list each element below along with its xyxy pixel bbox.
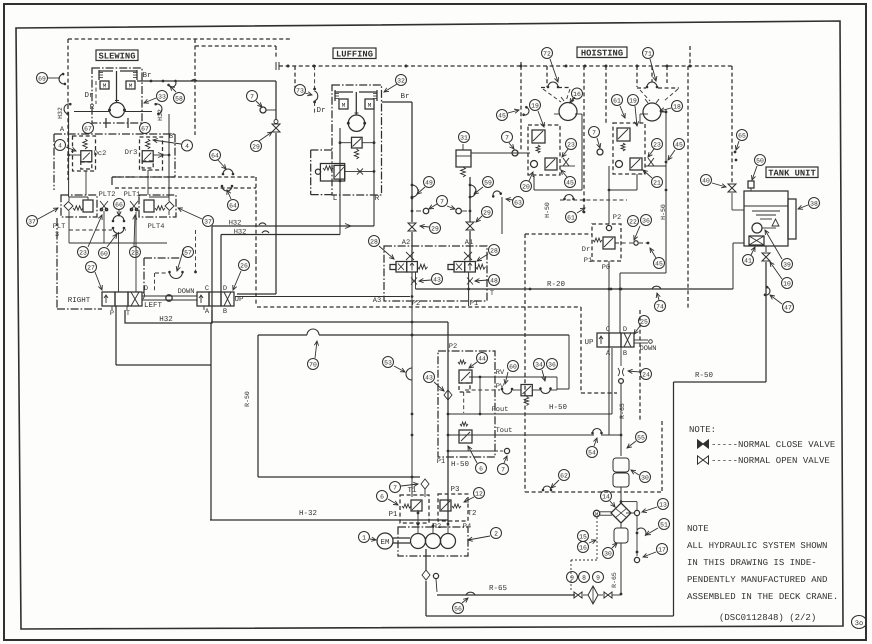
svg-text:44: 44 bbox=[478, 355, 486, 362]
svg-text:SLEWING: SLEWING bbox=[99, 51, 136, 61]
svg-text:H32: H32 bbox=[229, 220, 242, 228]
svg-text:ALL HYDRAULIC SYSTEM SHOWN: ALL HYDRAULIC SYSTEM SHOWN bbox=[687, 541, 827, 551]
svg-text:UP: UP bbox=[234, 296, 244, 304]
svg-text:23: 23 bbox=[567, 141, 575, 148]
svg-text:43: 43 bbox=[425, 374, 433, 381]
svg-text:45: 45 bbox=[498, 112, 506, 119]
svg-text:64: 64 bbox=[211, 152, 219, 159]
svg-text:Pout: Pout bbox=[492, 406, 509, 414]
svg-text:32: 32 bbox=[397, 77, 405, 84]
svg-text:H-50: H-50 bbox=[660, 204, 667, 220]
svg-text:Dr: Dr bbox=[316, 107, 325, 115]
svg-text:R-20: R-20 bbox=[547, 280, 566, 289]
svg-text:P1: P1 bbox=[388, 511, 398, 519]
svg-text:63: 63 bbox=[514, 199, 522, 206]
svg-text:57: 57 bbox=[184, 249, 192, 256]
svg-text:64: 64 bbox=[229, 202, 237, 209]
svg-text:50: 50 bbox=[756, 157, 764, 164]
svg-text:9: 9 bbox=[596, 574, 600, 581]
svg-text:H32: H32 bbox=[234, 229, 247, 237]
svg-text:34: 34 bbox=[535, 361, 543, 368]
svg-text:C: C bbox=[205, 285, 209, 293]
svg-text:HOISTING: HOISTING bbox=[581, 48, 623, 58]
svg-text:H32: H32 bbox=[159, 315, 173, 324]
svg-text:H-50: H-50 bbox=[549, 403, 568, 412]
svg-text:A2: A2 bbox=[402, 239, 410, 247]
svg-text:7: 7 bbox=[501, 466, 505, 473]
svg-text:49: 49 bbox=[425, 179, 433, 186]
svg-text:15: 15 bbox=[579, 533, 587, 540]
svg-text:36: 36 bbox=[642, 217, 650, 224]
svg-text:28: 28 bbox=[370, 238, 378, 245]
svg-text:TANK UNIT: TANK UNIT bbox=[768, 168, 816, 178]
svg-text:23: 23 bbox=[653, 141, 661, 148]
svg-text:36: 36 bbox=[548, 361, 556, 368]
svg-text:LEFT: LEFT bbox=[144, 302, 163, 310]
svg-text:58: 58 bbox=[175, 95, 183, 102]
svg-text:H32: H32 bbox=[57, 107, 64, 119]
svg-text:DOWN: DOWN bbox=[178, 288, 195, 296]
svg-text:3o: 3o bbox=[855, 620, 863, 628]
svg-text:22: 22 bbox=[629, 218, 637, 225]
svg-text:LUFFING: LUFFING bbox=[336, 49, 373, 59]
svg-text:30: 30 bbox=[604, 550, 612, 557]
svg-text:PLT1: PLT1 bbox=[124, 191, 141, 199]
svg-text:60: 60 bbox=[509, 363, 517, 370]
svg-text:39: 39 bbox=[783, 261, 791, 268]
svg-text:R: R bbox=[90, 104, 95, 112]
svg-text:55: 55 bbox=[637, 434, 645, 441]
svg-text:D: D bbox=[223, 285, 227, 293]
svg-text:6: 6 bbox=[479, 465, 483, 472]
svg-text:IN THIS DRAWING IS INDE-: IN THIS DRAWING IS INDE- bbox=[687, 558, 817, 568]
svg-text:UP: UP bbox=[584, 339, 594, 347]
svg-text:13: 13 bbox=[659, 501, 667, 508]
svg-text:48: 48 bbox=[490, 277, 498, 284]
svg-text:45: 45 bbox=[675, 141, 683, 148]
svg-text:4: 4 bbox=[58, 142, 62, 149]
svg-text:-----NORMAL OPEN VALVE: -----NORMAL OPEN VALVE bbox=[711, 456, 830, 466]
svg-text:Dc2: Dc2 bbox=[94, 150, 107, 158]
svg-text:P3: P3 bbox=[450, 485, 460, 494]
svg-text:53: 53 bbox=[384, 359, 392, 366]
svg-text:H32: H32 bbox=[157, 109, 164, 121]
svg-text:21: 21 bbox=[653, 179, 661, 186]
svg-text:P2: P2 bbox=[449, 343, 457, 351]
svg-text:33: 33 bbox=[158, 93, 166, 100]
svg-text:L: L bbox=[333, 195, 338, 203]
svg-text:17: 17 bbox=[658, 546, 666, 553]
svg-text:Dr3: Dr3 bbox=[125, 149, 138, 157]
svg-text:37: 37 bbox=[28, 218, 36, 225]
svg-text:27: 27 bbox=[87, 264, 95, 271]
svg-text:66: 66 bbox=[115, 201, 123, 208]
svg-text:T: T bbox=[126, 310, 130, 318]
svg-text:R-65: R-65 bbox=[619, 403, 626, 419]
svg-text:PENDENTLY MANUFACTURED AND: PENDENTLY MANUFACTURED AND bbox=[687, 575, 827, 585]
svg-text:43: 43 bbox=[433, 276, 441, 283]
svg-text:P2: P2 bbox=[613, 214, 621, 222]
svg-text:61: 61 bbox=[567, 214, 575, 221]
svg-text:M: M bbox=[103, 83, 107, 90]
svg-text:9: 9 bbox=[570, 574, 574, 581]
svg-text:M: M bbox=[595, 511, 598, 518]
svg-text:23: 23 bbox=[131, 249, 139, 256]
svg-text:70: 70 bbox=[309, 361, 317, 368]
svg-text:7: 7 bbox=[505, 134, 509, 141]
svg-text:PV: PV bbox=[496, 383, 505, 391]
svg-text:67: 67 bbox=[84, 125, 92, 132]
svg-text:R: R bbox=[375, 195, 380, 203]
svg-text:60: 60 bbox=[100, 250, 108, 257]
svg-text:12: 12 bbox=[475, 490, 483, 497]
svg-text:-----NORMAL CLOSE VALVE: -----NORMAL CLOSE VALVE bbox=[711, 440, 835, 450]
svg-text:H-50: H-50 bbox=[544, 202, 551, 218]
svg-text:1: 1 bbox=[362, 534, 366, 541]
svg-text:72: 72 bbox=[543, 50, 551, 57]
svg-text:29: 29 bbox=[252, 143, 260, 150]
svg-text:30: 30 bbox=[641, 474, 649, 481]
svg-text:R-65: R-65 bbox=[611, 572, 618, 588]
svg-text:7: 7 bbox=[250, 93, 254, 100]
svg-text:P: P bbox=[110, 310, 114, 318]
svg-text:29: 29 bbox=[483, 209, 491, 216]
svg-text:T: T bbox=[490, 290, 494, 298]
svg-text:25: 25 bbox=[640, 318, 648, 325]
svg-text:7: 7 bbox=[393, 484, 397, 491]
svg-text:45: 45 bbox=[566, 179, 574, 186]
svg-text:(DSC0112848) (2/2): (DSC0112848) (2/2) bbox=[719, 613, 816, 623]
svg-text:RIGHT: RIGHT bbox=[68, 296, 91, 305]
svg-text:T1: T1 bbox=[407, 487, 417, 495]
svg-text:Br: Br bbox=[142, 72, 151, 80]
svg-text:RV: RV bbox=[496, 369, 505, 377]
svg-text:62: 62 bbox=[560, 472, 568, 479]
svg-text:18: 18 bbox=[673, 103, 681, 110]
svg-text:P1: P1 bbox=[584, 257, 592, 265]
svg-text:PLT: PLT bbox=[53, 223, 66, 231]
svg-text:31: 31 bbox=[460, 134, 468, 141]
svg-text:B: B bbox=[223, 308, 227, 316]
svg-text:19: 19 bbox=[629, 97, 637, 104]
svg-text:EM: EM bbox=[380, 539, 390, 547]
svg-text:PLT4: PLT4 bbox=[148, 223, 165, 231]
svg-text:Br: Br bbox=[400, 93, 409, 101]
svg-text:R-50: R-50 bbox=[695, 371, 714, 380]
svg-text:P2: P2 bbox=[412, 300, 420, 308]
svg-text:Dr: Dr bbox=[84, 92, 93, 100]
svg-text:23: 23 bbox=[79, 249, 87, 256]
svg-text:7: 7 bbox=[440, 198, 444, 205]
svg-text:28: 28 bbox=[490, 247, 498, 254]
svg-text:NOTE: NOTE bbox=[687, 524, 709, 534]
svg-text:65: 65 bbox=[738, 132, 746, 139]
svg-text:67: 67 bbox=[141, 125, 149, 132]
svg-text:Tout: Tout bbox=[496, 427, 513, 435]
svg-text:56: 56 bbox=[454, 605, 462, 612]
svg-text:Dr: Dr bbox=[582, 246, 590, 254]
svg-text:DOWN: DOWN bbox=[640, 345, 657, 353]
svg-text:M: M bbox=[129, 83, 133, 90]
svg-text:71: 71 bbox=[644, 50, 652, 57]
svg-text:16: 16 bbox=[579, 544, 587, 551]
svg-text:ASSEMBLED IN THE DECK CRANE.: ASSEMBLED IN THE DECK CRANE. bbox=[687, 592, 838, 602]
svg-text:47: 47 bbox=[784, 304, 792, 311]
svg-text:37: 37 bbox=[204, 218, 212, 225]
svg-text:P1: P1 bbox=[470, 300, 478, 308]
svg-text:H-32: H-32 bbox=[299, 509, 317, 518]
svg-text:6: 6 bbox=[380, 493, 384, 500]
svg-text:45: 45 bbox=[655, 260, 663, 267]
svg-text:8: 8 bbox=[582, 574, 586, 581]
svg-text:40: 40 bbox=[702, 177, 710, 184]
svg-text:H-50: H-50 bbox=[451, 460, 470, 469]
svg-text:M: M bbox=[342, 102, 346, 109]
svg-text:73: 73 bbox=[296, 87, 304, 94]
svg-text:19: 19 bbox=[531, 102, 539, 109]
svg-text:26: 26 bbox=[240, 262, 248, 269]
svg-text:R-50: R-50 bbox=[244, 391, 251, 407]
svg-text:69: 69 bbox=[38, 75, 46, 82]
svg-text:NOTE:: NOTE: bbox=[689, 425, 716, 435]
svg-text:16: 16 bbox=[573, 91, 581, 98]
svg-text:7: 7 bbox=[592, 129, 596, 136]
svg-text:PLT2: PLT2 bbox=[99, 191, 116, 199]
svg-text:10: 10 bbox=[783, 280, 791, 287]
svg-text:29: 29 bbox=[431, 225, 439, 232]
svg-text:59: 59 bbox=[484, 179, 492, 186]
svg-text:P1: P1 bbox=[437, 458, 445, 466]
svg-text:B: B bbox=[623, 350, 627, 358]
svg-text:T2: T2 bbox=[467, 509, 476, 518]
svg-text:74: 74 bbox=[656, 303, 664, 310]
svg-text:A1: A1 bbox=[465, 239, 473, 247]
svg-text:A3: A3 bbox=[373, 297, 381, 305]
svg-text:D: D bbox=[144, 285, 148, 293]
svg-text:61: 61 bbox=[613, 97, 621, 104]
svg-text:2: 2 bbox=[494, 530, 498, 537]
svg-text:54: 54 bbox=[588, 449, 596, 456]
svg-text:24: 24 bbox=[642, 371, 650, 378]
svg-text:38: 38 bbox=[810, 200, 818, 207]
svg-text:41: 41 bbox=[744, 257, 752, 264]
svg-text:14: 14 bbox=[602, 493, 610, 500]
svg-text:51: 51 bbox=[660, 521, 668, 528]
svg-text:20: 20 bbox=[522, 183, 530, 190]
svg-text:M: M bbox=[368, 102, 372, 109]
svg-text:4: 4 bbox=[185, 143, 189, 150]
svg-text:R-65: R-65 bbox=[489, 584, 508, 593]
